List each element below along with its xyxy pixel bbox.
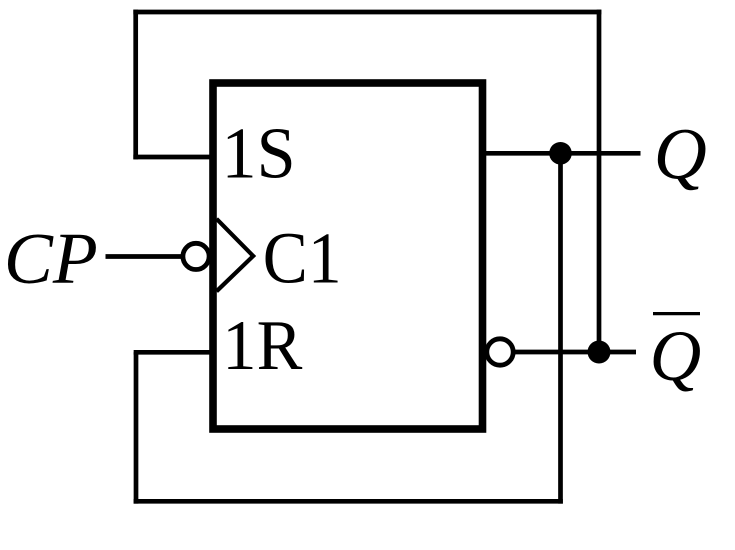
svg-text:CP: CP — [4, 218, 98, 299]
wire bottom horizontal rail of Q feedback — [134, 499, 563, 504]
wire left vertical of top feedback (node Q-bar to top rail) — [133, 10, 138, 160]
svg-text:1R: 1R — [222, 307, 303, 385]
wire top horizontal rail of Q-bar feedback — [133, 10, 601, 15]
wire vertical from node Q down to bottom rail — [558, 153, 563, 503]
svg-text:C1: C1 — [263, 218, 342, 299]
dynamic edge-trigger triangle at C1 input — [217, 219, 254, 291]
wire left vertical of bottom feedback (up to pin 1R) — [134, 352, 139, 503]
overbar of Q-bar label — [653, 312, 700, 315]
inversion bubble on Q-bar output — [487, 339, 513, 365]
svg-text:Q: Q — [650, 317, 702, 396]
wire Q-bar output lead — [513, 350, 636, 355]
junction dot at node Q — [549, 142, 572, 165]
wire 1S input stub (horizontal into pin 1S) — [133, 155, 213, 160]
svg-text:Q: Q — [654, 114, 707, 195]
svg-text:1S: 1S — [222, 113, 296, 194]
wire right vertical of top feedback (down to node Q-bar) — [597, 10, 602, 352]
wire CP clock input lead — [106, 254, 184, 259]
junction dot at node Q-bar — [588, 341, 611, 364]
wire Q output lead — [484, 151, 641, 156]
inversion bubble on C1 clock input — [183, 243, 209, 269]
flip-flop U1 body (rectangular outline) — [213, 83, 483, 429]
wire 1R input stub (horizontal into pin 1R) — [134, 350, 213, 355]
